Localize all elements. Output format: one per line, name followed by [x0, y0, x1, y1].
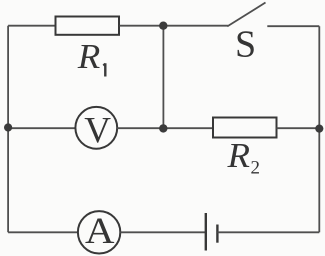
svg-text:S: S — [235, 24, 256, 66]
svg-text:R: R — [226, 136, 250, 175]
svg-text:2: 2 — [251, 158, 261, 179]
svg-text:V: V — [84, 111, 111, 152]
svg-text:R: R — [77, 37, 101, 76]
svg-text:A: A — [85, 211, 115, 252]
